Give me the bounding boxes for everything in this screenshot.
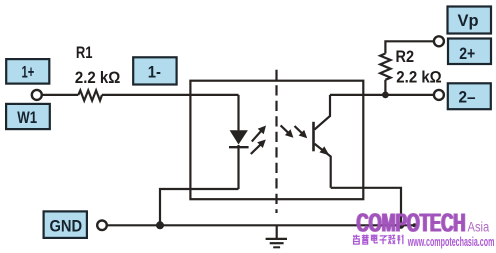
svg-text:www.compotechasia.com: www.compotechasia.com [407,236,494,250]
svg-text:2.2 kΩ: 2.2 kΩ [396,69,441,87]
svg-text:R1: R1 [76,45,93,63]
svg-text:W1: W1 [17,109,37,128]
svg-text:2–: 2– [458,89,475,107]
svg-text:Asia: Asia [468,220,490,235]
svg-text:2.2 kΩ: 2.2 kΩ [75,69,120,87]
svg-text:Vp: Vp [457,12,478,30]
svg-text:GND: GND [49,218,82,236]
svg-text:COMPOTECH: COMPOTECH [357,208,466,238]
svg-text:2+: 2+ [459,45,475,63]
svg-text:1+: 1+ [22,62,35,81]
svg-text:1-: 1- [148,64,161,82]
svg-text:R2: R2 [396,48,415,66]
